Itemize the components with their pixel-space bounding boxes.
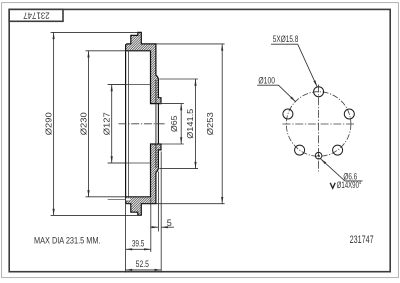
dimension d127 [108, 85, 126, 163]
bottom extension lines [126, 152, 162, 273]
bolt hole left [283, 109, 293, 119]
dimension 39.5 [126, 248, 151, 250]
svg-text:Ø230: Ø230 [79, 112, 89, 135]
dimension d253 [157, 44, 225, 204]
section lower half (hatched, mirror) [126, 144, 161, 215]
svg-text:Ø290: Ø290 [44, 112, 54, 135]
hub face edge lines seen in cavity (d127) [108, 84, 151, 86]
svg-text:Ø127: Ø127 [102, 112, 112, 135]
svg-text:Ø253: Ø253 [205, 112, 215, 135]
dimension d65 [159, 104, 184, 144]
svg-text:231747: 231747 [23, 11, 50, 21]
svg-text:5: 5 [167, 218, 172, 228]
svg-text:39.5: 39.5 [132, 239, 145, 249]
drum back plane visible edge [155, 80, 157, 168]
bore rear step edge across bore [157, 104, 159, 144]
svg-text:Ø14X90°: Ø14X90° [337, 180, 362, 190]
svg-text:52.5: 52.5 [136, 259, 149, 269]
faint bore line [155, 104, 157, 144]
svg-text:231747: 231747 [350, 234, 374, 246]
dimension d230 [86, 51, 126, 197]
section upper half (hatched) [126, 32, 161, 103]
section centerline [119, 123, 167, 125]
svg-text:Ø100: Ø100 [258, 75, 275, 85]
open-end chamfer ring line [127, 51, 129, 197]
corner relief groove at bottom-left of braking surface [126, 198, 130, 201]
dimension d141.5 [159, 79, 198, 169]
svg-text:5XØ15.8: 5XØ15.8 [273, 34, 299, 44]
svg-text:Ø65: Ø65 [169, 115, 179, 132]
leader d6.6 countersink [321, 159, 363, 181]
dimension 5 [150, 226, 174, 228]
bolt hole top [314, 87, 324, 97]
drum open-end face edge line [125, 51, 127, 197]
bolt hole bottom-right [333, 145, 343, 155]
small hole d6.6 [315, 152, 322, 159]
svg-text:Ø141.5: Ø141.5 [185, 108, 195, 138]
dimension d290 [51, 32, 141, 215]
svg-text:MAX DIA 231.5 MM.: MAX DIA 231.5 MM. [34, 235, 101, 245]
bolt hole right [344, 109, 354, 119]
bolt circle d100 (dash-dot) [286, 92, 351, 157]
title block box top-left [9, 9, 63, 21]
bolt hole bottom-left [295, 145, 305, 155]
vertical centerline [318, 85, 320, 172]
horizontal centerline [283, 123, 356, 125]
dimension 52.5 [126, 269, 162, 271]
